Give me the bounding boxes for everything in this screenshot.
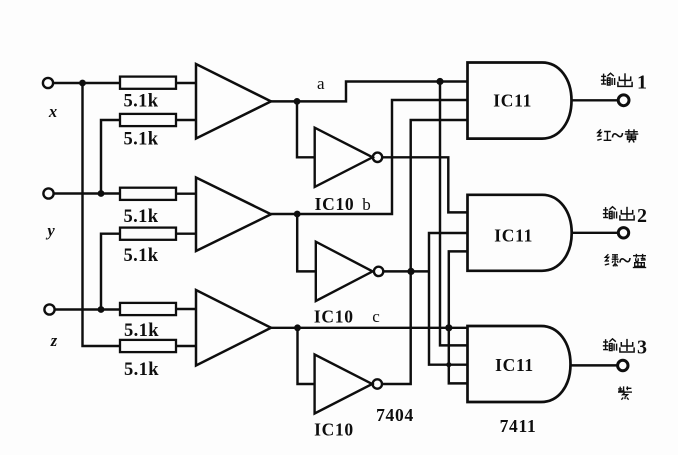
svg-text:~: ~ <box>612 123 624 148</box>
svg-text:IC10: IC10 <box>315 194 355 214</box>
svg-text:z: z <box>50 331 58 350</box>
svg-text:5.1k: 5.1k <box>123 246 158 266</box>
svg-text:c: c <box>372 307 380 326</box>
svg-text:IC10: IC10 <box>314 307 354 327</box>
svg-text:5.1k: 5.1k <box>123 92 158 112</box>
svg-text:7404: 7404 <box>376 405 414 425</box>
svg-text:5.1k: 5.1k <box>123 207 158 227</box>
svg-text:1: 1 <box>637 72 647 94</box>
svg-text:~: ~ <box>619 248 631 273</box>
svg-text:5.1k: 5.1k <box>124 321 159 341</box>
svg-text:IC11: IC11 <box>495 355 534 375</box>
svg-text:b: b <box>362 195 371 214</box>
svg-text:IC10: IC10 <box>314 420 354 440</box>
svg-text:IC11: IC11 <box>494 226 533 246</box>
svg-text:7411: 7411 <box>500 416 537 436</box>
svg-text:IC11: IC11 <box>493 91 532 111</box>
svg-text:y: y <box>45 221 55 240</box>
svg-text:a: a <box>317 74 325 93</box>
svg-text:3: 3 <box>637 337 647 359</box>
svg-text:5.1k: 5.1k <box>124 360 159 380</box>
svg-text:x: x <box>48 102 57 121</box>
svg-text:2: 2 <box>637 205 647 227</box>
svg-text:5.1k: 5.1k <box>123 130 158 150</box>
